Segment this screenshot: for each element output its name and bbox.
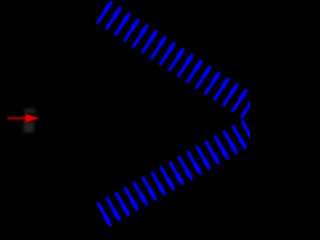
wavefront tick U15 xyxy=(224,85,237,105)
wavefront tick L5 xyxy=(134,183,146,204)
wavefront tick L16 xyxy=(233,127,245,148)
upper shock front: hatch of outward wavefront ticks xyxy=(98,2,255,116)
wavefront tick U8 xyxy=(161,44,174,64)
wavefront tick L10 xyxy=(179,158,191,179)
wavefront tick L7 xyxy=(152,173,164,194)
lower shock front: hatch of outward wavefront ticks xyxy=(98,122,254,225)
wavefront tick U4 xyxy=(125,20,138,40)
wavefront tick L3 xyxy=(116,194,128,215)
wavefront tick U3 xyxy=(116,14,129,34)
wavefront tick L15 xyxy=(224,132,236,153)
wavefront tick U13 xyxy=(206,73,219,93)
wavefront tick U6 xyxy=(143,32,156,52)
wavefront tick U16 xyxy=(233,91,246,111)
wavefront tick L2 xyxy=(107,199,119,220)
wavefront tick U1 xyxy=(98,2,111,22)
wavefront tick U14 xyxy=(215,79,228,99)
wavefront tick L8 xyxy=(161,168,173,189)
wavefront tick U12 xyxy=(197,67,210,87)
wavefront tick U2 xyxy=(107,8,120,28)
wavefront tick U11 xyxy=(188,61,201,81)
wavefront tick L4 xyxy=(125,188,137,209)
wavefront tick L14 xyxy=(215,137,227,158)
wavefront tick L17 xyxy=(242,122,254,143)
wavefront tick U10 xyxy=(179,55,192,75)
wavefront tick L12 xyxy=(197,147,209,168)
wavefront tick U7 xyxy=(152,38,165,58)
red velocity arrow (particle direction) xyxy=(7,114,39,123)
wavefront tick L11 xyxy=(188,153,200,174)
wavefront tick U9 xyxy=(170,50,183,70)
wavefront tick L13 xyxy=(206,142,218,163)
faint ghost artifact behind arrowhead xyxy=(24,109,36,133)
wavefront tick L9 xyxy=(170,163,182,184)
wavefront tick U17 xyxy=(242,97,255,117)
wavefront tick U5 xyxy=(134,26,147,46)
wavefront tick L1 xyxy=(98,204,110,225)
wavefront tick L6 xyxy=(143,178,155,199)
